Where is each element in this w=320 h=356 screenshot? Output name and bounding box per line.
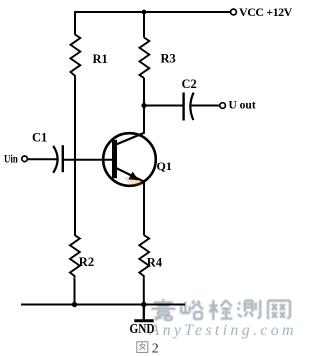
- resistor R2: [70, 235, 80, 279]
- transistor Q1 emitter arrow: [128, 172, 138, 181]
- resistor R1: [71, 35, 81, 81]
- wire ground stub: [143, 305, 145, 320]
- junction dot bottom left: [72, 302, 77, 307]
- emitter artifact tint: [123, 175, 144, 189]
- svg-text:R3: R3: [161, 52, 176, 66]
- svg-text:R1: R1: [93, 52, 108, 66]
- wire C2 branch: [144, 105, 183, 107]
- svg-text:U out: U out: [229, 100, 256, 112]
- svg-text:R2: R2: [79, 255, 94, 269]
- svg-text:Uin: Uin: [4, 153, 18, 165]
- node U out terminal: [220, 103, 226, 109]
- wire emitter to R4: [143, 182, 145, 235]
- watermark 检: [209, 300, 232, 320]
- capacitor C2: [184, 93, 194, 121]
- wire left vertical bottom: [74, 279, 76, 305]
- watermark 嘉: [151, 299, 175, 320]
- svg-text:GND: GND: [130, 321, 155, 336]
- wire Uin to C1: [28, 158, 57, 160]
- wire C2 to output: [191, 105, 220, 107]
- junction dot top: [142, 10, 147, 15]
- caption 图 glyph: [137, 342, 148, 353]
- wire middle vertical to collector: [143, 78, 145, 133]
- wire left vertical top: [74, 11, 76, 35]
- transistor Q1 base bar: [112, 140, 117, 178]
- capacitor C1: [53, 145, 63, 173]
- svg-text:VCC +12V: VCC +12V: [239, 5, 293, 19]
- junction dot bottom middle: [141, 302, 146, 307]
- svg-text:C1: C1: [32, 131, 47, 145]
- svg-text:Q1: Q1: [157, 159, 172, 173]
- watermark 网: [268, 301, 290, 320]
- wire C1 to base: [64, 159, 113, 161]
- transistor Q1 circle: [103, 133, 156, 186]
- wire middle vertical bottom: [143, 279, 145, 305]
- resistor R4: [139, 235, 149, 279]
- resistor R3: [140, 38, 150, 78]
- transistor Q1 collector: [116, 133, 145, 145]
- watermark 测: [237, 300, 260, 319]
- node Uin terminal: [22, 156, 28, 162]
- wire bottom rail: [21, 303, 185, 305]
- wire middle vertical top: [143, 11, 145, 38]
- ground bar: [134, 319, 153, 322]
- node VCC terminal: [231, 9, 237, 15]
- svg-text:2: 2: [152, 341, 159, 356]
- svg-text:AnyTesting.com: AnyTesting.com: [149, 322, 297, 339]
- wire top rail: [75, 11, 231, 13]
- svg-text:C2: C2: [182, 77, 197, 91]
- watermark 峪: [181, 301, 203, 320]
- svg-text:R4: R4: [147, 256, 163, 270]
- transistor Q1 emitter: [116, 168, 144, 182]
- wire left vertical middle: [74, 80, 76, 235]
- junction dot C2 branch: [141, 103, 146, 108]
